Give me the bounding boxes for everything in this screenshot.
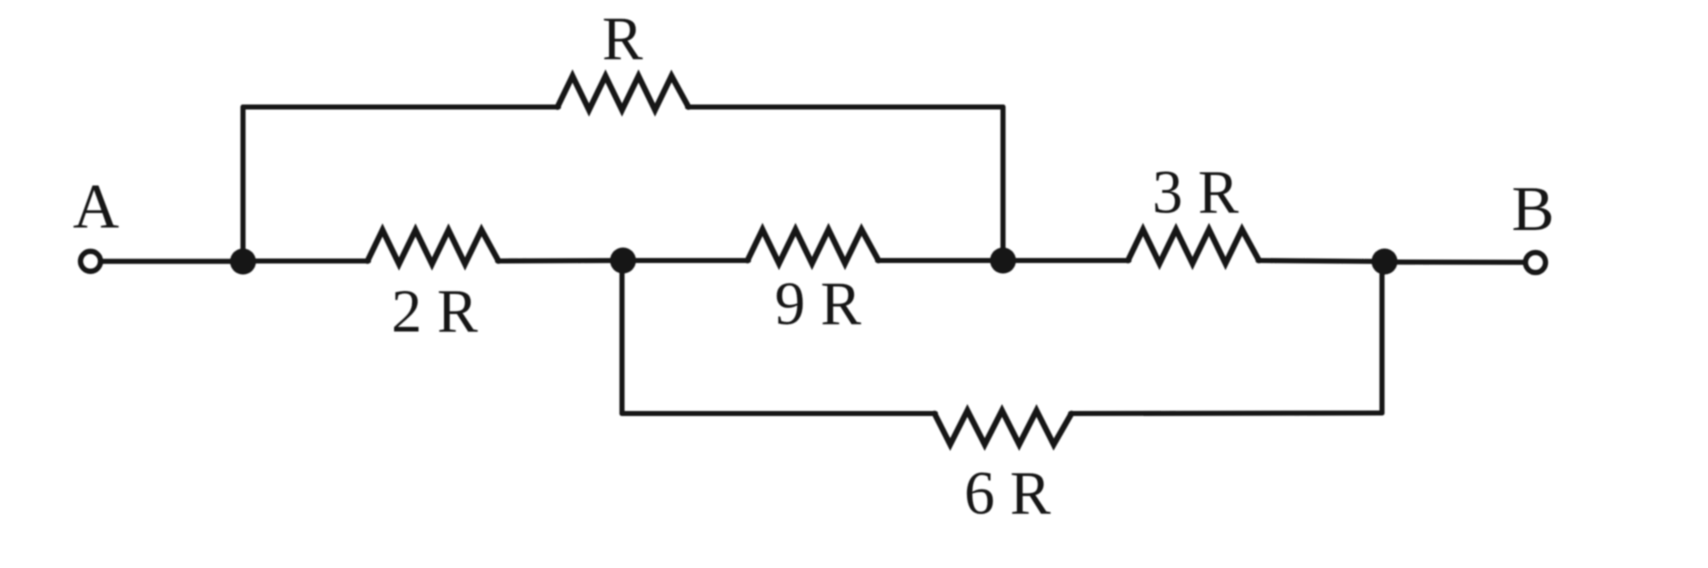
wire node 2 down to bottom rail (619, 261, 624, 414)
svg-text:3 R: 3 R (1152, 160, 1239, 227)
wire top rail right segment (688, 104, 1004, 109)
svg-text:6 R: 6 R (964, 461, 1051, 528)
node 3 (990, 248, 1016, 274)
svg-text:A: A (73, 171, 119, 242)
svg-text:2 R: 2 R (391, 279, 478, 346)
wire resistor 9R to node 3 (878, 258, 1004, 263)
resistor 6R (935, 411, 1072, 445)
wire resistor 2R to node 2 (498, 258, 624, 264)
wire node 1 to resistor 2R (243, 258, 369, 263)
wire resistor 3R to node 4 (1258, 261, 1385, 262)
wire node 3 to resistor 3R (1003, 258, 1129, 263)
wire bottom rail up to node 4 (1379, 262, 1384, 414)
wire A to node 1 (101, 259, 243, 264)
wire node 4 to terminal B (1385, 259, 1526, 264)
svg-text:B: B (1512, 173, 1555, 244)
wire node 1 up to top rail (240, 107, 245, 261)
wire bottom rail right segment (1071, 410, 1383, 416)
resistor R (558, 76, 689, 110)
terminal A (81, 251, 101, 271)
wire node 2 to resistor 9R (623, 258, 749, 263)
resistor 9R (748, 230, 879, 264)
wire top rail down to node 3 (1000, 107, 1005, 261)
terminal B (1526, 253, 1546, 273)
resistor 3R (1128, 230, 1259, 264)
wire top rail left segment (243, 104, 559, 109)
node 1 (230, 249, 256, 275)
svg-text:R: R (602, 6, 643, 73)
node 4 (1372, 249, 1398, 275)
resistor 2R (368, 230, 499, 264)
svg-text:9 R: 9 R (775, 271, 862, 338)
node 2 (610, 248, 636, 274)
wire bottom rail left segment (622, 411, 936, 416)
